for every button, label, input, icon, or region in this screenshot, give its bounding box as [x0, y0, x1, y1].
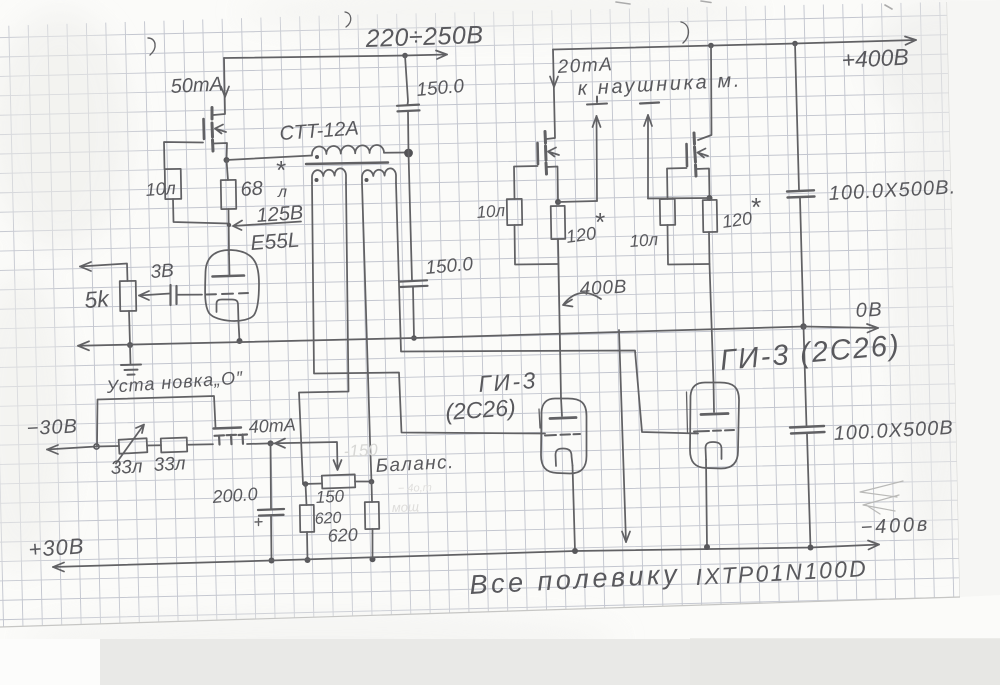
- svg-text:50mA: 50mA: [170, 73, 223, 98]
- wire R7 to bus: [306, 532, 309, 560]
- potentiometer R6 150 body: [322, 474, 355, 488]
- wire Q2 gate lead: [514, 166, 538, 199]
- wire 220-250V supply rail: [224, 55, 447, 59]
- wire S1 right lead to balance pot left: [299, 183, 349, 484]
- transformer T1 secondary S2 polarity dot: [365, 178, 369, 182]
- transistor Q2 gate bar: [536, 143, 539, 164]
- transistor Q1 source arrow: [215, 125, 226, 134]
- wire R8 to bus: [372, 529, 374, 559]
- tube V1 plate bar: [213, 276, 245, 277]
- transformer T1 secondary winding S1: [312, 168, 346, 183]
- transformer T1 secondary S1 polarity dot: [315, 178, 319, 182]
- svg-text:120: 120: [721, 208, 754, 232]
- svg-text:0B: 0B: [855, 299, 884, 322]
- arrow 400V pointer: [563, 293, 601, 307]
- arrowhead 20mA down: [550, 77, 558, 88]
- wire R5 to switch: [187, 443, 213, 446]
- resistor R10 120 body: [551, 206, 566, 239]
- switch S1 contact T1: [215, 435, 225, 444]
- node rail C5: [792, 41, 798, 47]
- wire pot left to R7: [306, 484, 307, 505]
- wire R4 to R5: [147, 444, 161, 446]
- svg-text:*: *: [594, 207, 605, 237]
- tube V3 cathode: [706, 442, 722, 460]
- page bottom edge line: [0, 597, 960, 627]
- tube V3 grid dashes: [694, 430, 734, 432]
- node R3 bottom on bus: [127, 342, 133, 348]
- svg-text:+400B: +400B: [841, 44, 909, 73]
- wire source node to R2: [227, 160, 229, 180]
- resistor R11 10ohm body: [660, 199, 675, 225]
- tube V2 plate bar: [550, 418, 576, 419]
- wire R9 bottom to R10 bottom: [515, 225, 558, 265]
- node 40mA junction: [268, 440, 274, 446]
- wire 0V to -400V marker arrow: [619, 330, 626, 542]
- resistor R8 620 body: [365, 502, 379, 529]
- wire R12 bottom junction: [708, 232, 711, 264]
- svg-text:*: *: [275, 155, 286, 185]
- svg-text:ГИ-3: ГИ-3: [478, 367, 539, 397]
- svg-text:*: *: [750, 192, 761, 222]
- svg-text:620: 620: [327, 524, 358, 546]
- node rail Q3 drain: [708, 43, 714, 49]
- wire node to balance wiper with arrowhead: [271, 439, 338, 468]
- capacitor C4 200.0 plates: [258, 509, 284, 516]
- wire R1 bottom to plate node: [173, 199, 228, 224]
- svg-text:3B: 3B: [150, 260, 175, 283]
- arrowhead 50mA current direction: [221, 87, 229, 98]
- node R8 on bus: [370, 556, 376, 562]
- svg-text:33л: 33л: [153, 453, 186, 476]
- node Q2 source junction: [555, 199, 561, 205]
- resistor R9 10ohm body: [507, 199, 522, 225]
- transformer T1 primary polarity dot: [315, 155, 319, 159]
- wire headphone tap left: [558, 201, 597, 202]
- wire headphone arrow right: [647, 115, 649, 199]
- wire Q3 gate lead: [667, 168, 687, 199]
- tube V2 grid dashes: [545, 434, 580, 436]
- node V2 cathode on bus: [572, 548, 578, 554]
- node C2 on 0V bus: [411, 335, 417, 341]
- wire -30V to variable resistor: [97, 445, 120, 448]
- svg-text:л: л: [277, 184, 287, 201]
- transformer T1 core: [306, 163, 388, 165]
- wire C2 bottom to 0V bus: [413, 288, 414, 339]
- arrowhead bottom bus left: [53, 563, 64, 572]
- wire V3 cathode to bus: [706, 460, 707, 548]
- transistor Q2 channel bars: [545, 132, 547, 175]
- node pot left: [303, 481, 309, 487]
- transistor Q1 gate bar: [202, 119, 205, 139]
- svg-text:5k: 5k: [84, 285, 112, 313]
- capacitor C1 150.0 top lead: [405, 56, 408, 106]
- wire pot right lead: [355, 481, 372, 483]
- capacitor C5 plates: [787, 190, 815, 197]
- wire C4 bottom to +30V bus: [270, 516, 273, 561]
- tube V1 E55L envelope: [205, 250, 259, 321]
- node -30V junction: [94, 444, 99, 449]
- svg-text:68: 68: [240, 177, 264, 200]
- wire input arrow left: [80, 264, 128, 282]
- wire V1 grid lead from cap: [177, 294, 203, 296]
- arrowhead -30V left: [47, 445, 58, 454]
- wire 40mA node down to C4: [270, 443, 273, 509]
- wire left plate drop to tube V2: [559, 264, 562, 398]
- wire ground stub: [129, 345, 132, 364]
- wire drain drop Q1: [214, 58, 226, 115]
- resistor R1 10ohm body: [165, 169, 182, 199]
- wire setting jumper loop: [97, 396, 216, 447]
- svg-text:125B: 125B: [256, 202, 304, 227]
- wire source node to primary: [227, 156, 313, 161]
- transistor Q3 gate bar: [685, 144, 688, 166]
- terminal bar headphone left plus: [587, 97, 607, 105]
- arrowhead marker down: [622, 532, 630, 543]
- scan curl mark top center: [681, 22, 688, 43]
- capacitor C6 plates: [790, 426, 825, 434]
- wire right plate drop to tube V3: [710, 264, 714, 382]
- tube V2 cathode: [556, 449, 573, 467]
- arrow 125V pointer: [233, 221, 301, 231]
- capacitor C1 plates: [397, 105, 420, 112]
- right page margin: [947, 0, 1000, 597]
- wire primary node down to C2: [409, 153, 413, 281]
- wire pot left lead: [303, 483, 322, 486]
- wire Q2 source lead: [547, 167, 559, 203]
- label plus C4: [255, 519, 262, 526]
- page right edge line: [947, 2, 960, 597]
- node C5 on 0V bus: [800, 323, 806, 329]
- svg-text:+30B: +30B: [28, 533, 86, 562]
- svg-text:−30B: −30B: [26, 415, 78, 440]
- wire primary right lead: [384, 152, 406, 154]
- wire Q3 source lead: [696, 169, 710, 199]
- wire 0V bus left section: [78, 327, 804, 346]
- tube V3 envelope left double stroke: [687, 392, 688, 432]
- terminal bar headphone right minus: [640, 103, 659, 104]
- arrowhead bottom bus right: [868, 541, 879, 550]
- svg-text:10л: 10л: [476, 201, 506, 222]
- potentiometer R3 5k body: [120, 281, 137, 311]
- wire S2 left lead to balance pot right: [362, 183, 372, 482]
- wire R2 bottom to tube plate: [228, 209, 231, 254]
- svg-text:10л: 10л: [629, 230, 659, 251]
- svg-text:40mA: 40mA: [248, 415, 296, 437]
- wire C6 bottom to -400V bus: [807, 434, 811, 548]
- svg-text:400B: 400B: [579, 277, 628, 300]
- resistor R2 68ohm body: [221, 180, 237, 209]
- transistor Q3 channel bars: [694, 133, 696, 176]
- resistor R5 33ohm body: [161, 438, 187, 453]
- wire switch to 40mA node: [247, 442, 270, 445]
- arrowhead R3 wiper: [139, 291, 149, 300]
- ground symbol: [121, 365, 141, 375]
- node R7 on bus: [305, 557, 311, 563]
- tube V2 envelope left double stroke: [539, 409, 540, 428]
- svg-text:−400в: −400в: [860, 513, 931, 539]
- wire C1 bottom to primary node: [407, 112, 410, 153]
- arrowhead supply rail right: [436, 51, 447, 60]
- node primary/cap vertical junction: [404, 149, 413, 158]
- transistor Q1 channel bars: [212, 108, 213, 152]
- tube V2 GI-3 envelope: [541, 399, 587, 474]
- node Q1 source junction: [224, 157, 230, 163]
- arrowhead 0V right: [867, 324, 878, 333]
- tube V2 plate lead: [561, 398, 562, 416]
- wire S1 left lead to left GI-3 grid: [312, 183, 545, 434]
- svg-text:(2C26): (2C26): [445, 394, 517, 425]
- svg-text:10л: 10л: [145, 178, 177, 200]
- wire R3 wiper from cap: [139, 294, 170, 296]
- node V1 cathode on bus: [237, 338, 243, 344]
- wire +30V / -400V bottom bus: [53, 545, 879, 568]
- node C4 on bus: [269, 558, 275, 564]
- arrowhead input left: [80, 262, 91, 271]
- wire pot right to R8: [371, 482, 374, 502]
- tube V3 plate bar: [701, 414, 728, 415]
- svg-text:E55L: E55L: [250, 229, 301, 255]
- wire Q1 source lead: [213, 143, 227, 160]
- node pot right: [369, 479, 375, 485]
- wire C5 bottom to 0V bus: [800, 198, 804, 327]
- scan chevron mark bottom right: [860, 481, 903, 514]
- svg-text:Баланс.: Баланс.: [375, 452, 455, 477]
- resistor R7 620 body: [300, 505, 314, 532]
- wire R11 bottom to R12 bottom: [668, 225, 710, 265]
- tube V3 plate lead: [713, 382, 716, 412]
- tube V1 cathode: [217, 300, 239, 323]
- transformer T1 primary winding: [312, 145, 384, 154]
- scan curl mark top left: [148, 38, 155, 55]
- arrowhead +400V right: [905, 37, 916, 45]
- tube V1 grid dashes: [207, 293, 249, 295]
- resistor R12 120 body: [703, 200, 718, 232]
- resistor R4 33ohm variable body: [119, 438, 148, 453]
- arrowhead balance wiper down: [334, 460, 342, 470]
- node plate 125V junction: [227, 223, 231, 227]
- arrow R4 variable diagonal: [116, 425, 144, 464]
- scan curl mark top mid-left: [345, 12, 351, 27]
- svg-text:120: 120: [565, 223, 598, 247]
- svg-text:20mA: 20mA: [556, 54, 614, 78]
- svg-text:200.0: 200.0: [211, 484, 258, 507]
- wire C5 node down to C6: [804, 327, 807, 427]
- svg-text:150: 150: [315, 487, 345, 507]
- node C6 on bus: [808, 545, 814, 551]
- transistor Q2 source arrow: [548, 148, 559, 157]
- svg-text:мощ: мощ: [392, 499, 420, 515]
- wire V1 cathode to 0V bus: [239, 322, 240, 341]
- svg-text:150.0: 150.0: [425, 254, 475, 279]
- bottom scanner strip: [100, 639, 1000, 685]
- wire V2 cathode to bus: [573, 466, 576, 552]
- wire S2 right lead to right GI-3 grid: [396, 183, 698, 434]
- wire -30V lead-in: [47, 447, 96, 450]
- svg-text:-150: -150: [343, 440, 379, 461]
- wire R3 bottom to 0V bus: [129, 311, 130, 345]
- arrowhead 0V bus left: [78, 341, 89, 350]
- svg-text:220÷250B: 220÷250B: [364, 21, 484, 53]
- wire Q3 drain drop: [698, 46, 712, 141]
- wire headphone tap right: [648, 197, 710, 200]
- svg-text:33л: 33л: [110, 456, 143, 479]
- svg-text:− 4о,т: − 4о,т: [398, 482, 432, 495]
- switch S1 bar: [214, 428, 242, 429]
- capacitor C3 coupling plates: [171, 285, 177, 305]
- transformer T1 secondary winding S2: [362, 168, 396, 183]
- wire Q2 drain drop: [547, 50, 556, 140]
- node supply/cap junction: [402, 53, 408, 59]
- capacitor C5 100x500 top lead: [795, 44, 799, 191]
- svg-text:150.0: 150.0: [416, 76, 466, 101]
- arrowhead headphone right up: [644, 115, 652, 126]
- transistor Q3 source arrow: [698, 149, 709, 158]
- wire headphone arrow left: [596, 116, 599, 201]
- tube V1 plate lead: [228, 254, 231, 275]
- switch S1 contact T3: [239, 435, 248, 444]
- switch S1 contact T2: [227, 435, 237, 444]
- wire +400V rail: [553, 40, 916, 50]
- tube V3 GI-3 envelope: [690, 383, 739, 469]
- node Q3 source junction: [707, 195, 713, 201]
- wire Q1 gate lead: [164, 142, 203, 169]
- wire R10 bottom junction: [557, 239, 560, 264]
- arrowhead headphone left up: [593, 116, 601, 127]
- wire 0V bus right tail with arrow: [804, 327, 879, 329]
- capacitor C2 plates: [399, 280, 428, 287]
- node V3 cathode on bus: [704, 544, 710, 550]
- scan specks top edge: [616, 1, 892, 9]
